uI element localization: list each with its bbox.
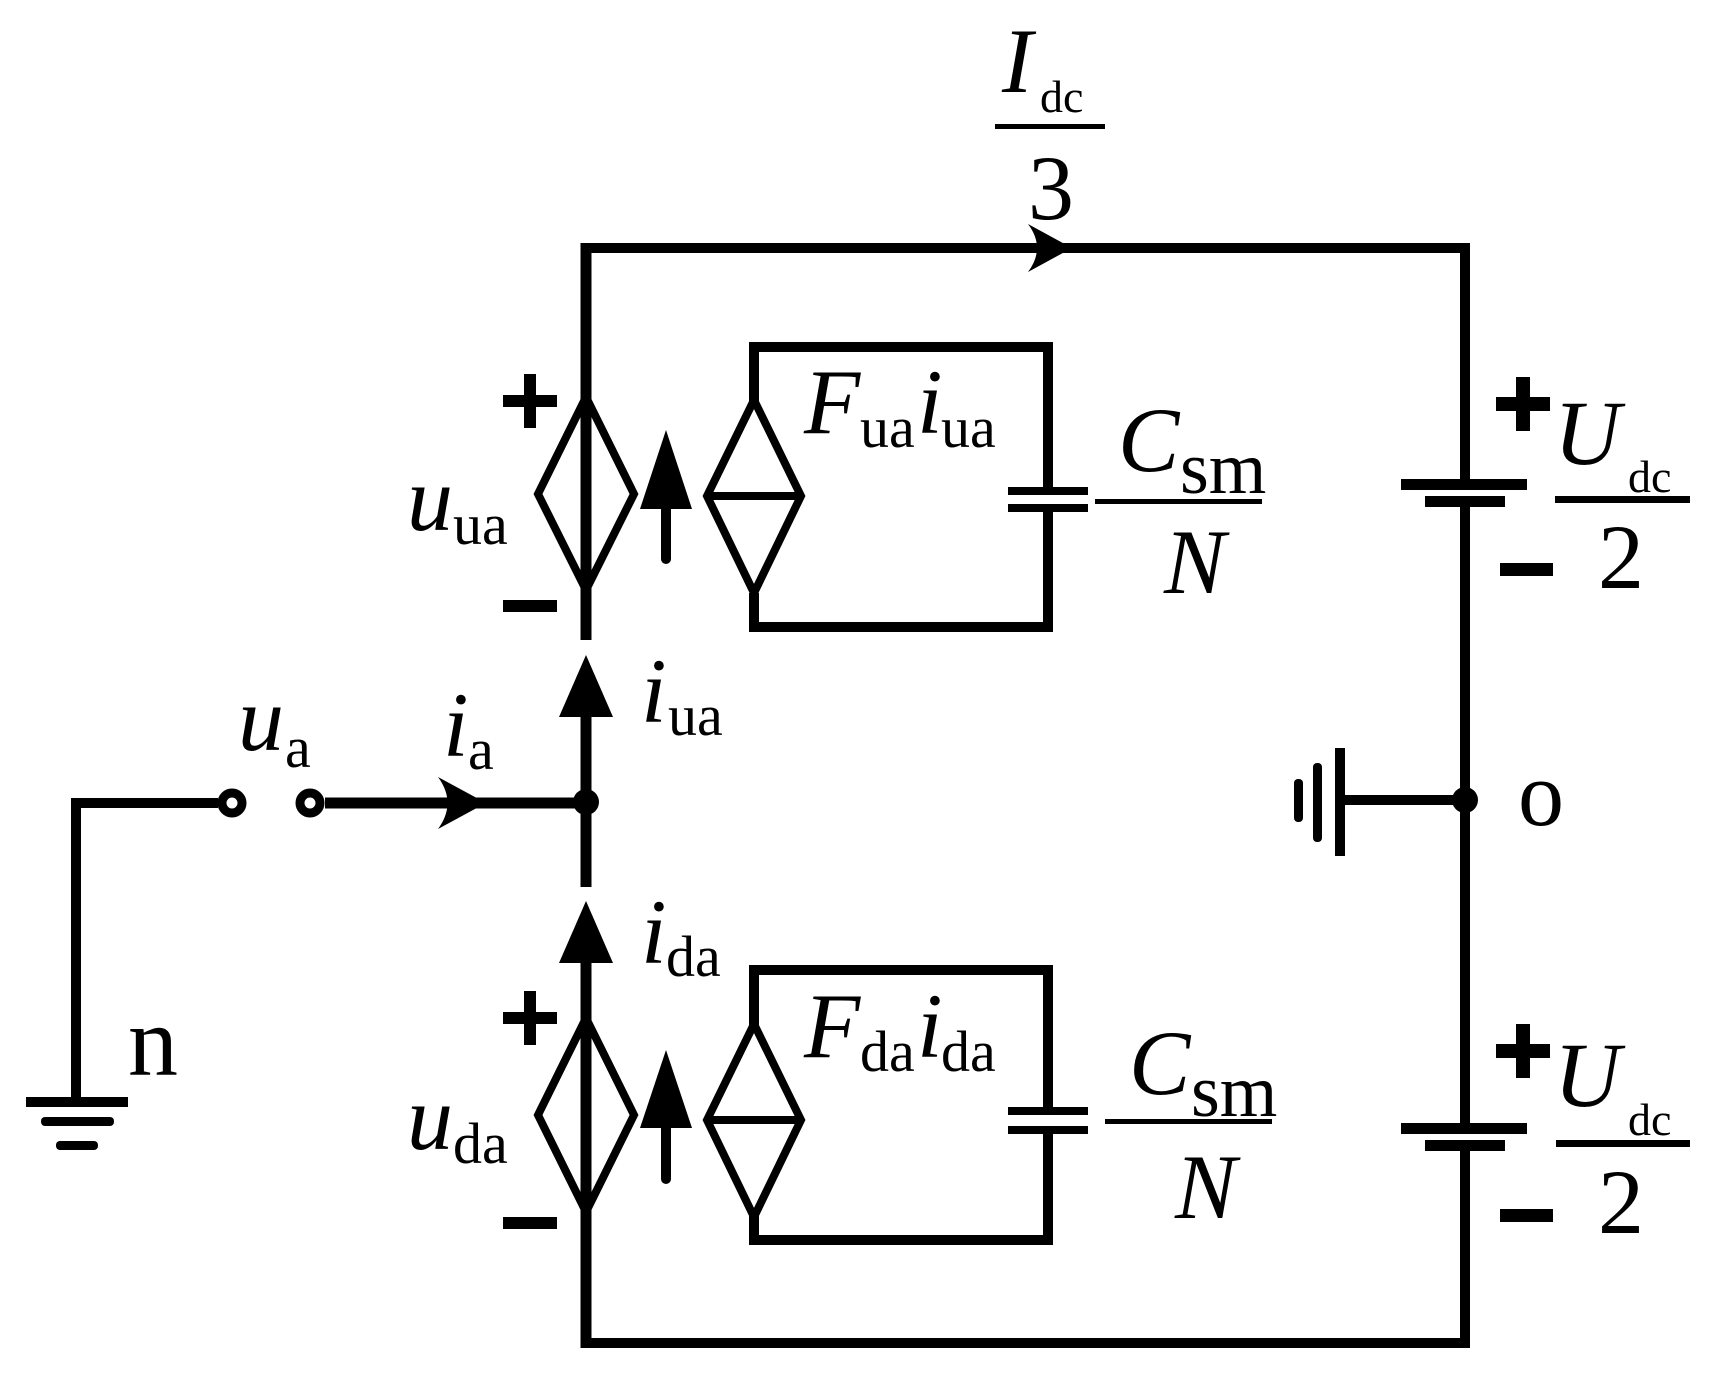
ground n bar3 bbox=[56, 1141, 98, 1150]
wire phase input right of terminal bbox=[325, 798, 586, 809]
minus sign battery lower bbox=[1500, 1209, 1553, 1222]
svg-text:u: u bbox=[238, 668, 284, 770]
node o junction dot bbox=[1452, 787, 1478, 813]
wire center arm between iua arrow and node a bbox=[581, 717, 592, 887]
dependent current source F_ua chord bbox=[707, 492, 801, 500]
wire right upper (corner to Udc/2 upper battery) bbox=[1460, 243, 1470, 479]
ground o bar3 bbox=[1294, 779, 1303, 822]
wire phase input horizontal bbox=[71, 798, 218, 808]
svg-text:C: C bbox=[1118, 389, 1181, 491]
svg-text:ua: ua bbox=[668, 683, 723, 748]
arrow beside u_da head bbox=[640, 1050, 692, 1128]
svg-text:i: i bbox=[443, 674, 469, 776]
submodule box upper bottom segment bbox=[754, 510, 1048, 627]
svg-text:ua: ua bbox=[453, 492, 508, 557]
svg-text:da: da bbox=[666, 924, 721, 989]
ground o bar2 bbox=[1313, 763, 1322, 842]
ground o bar1 bbox=[1335, 748, 1345, 856]
node a junction dot bbox=[573, 789, 599, 815]
arrow beside u_da tail bbox=[661, 1128, 671, 1179]
fraction bar Idc/3 bbox=[995, 124, 1105, 129]
svg-text:n: n bbox=[128, 986, 178, 1097]
plus sign u_ua bbox=[503, 395, 557, 407]
svg-text:N: N bbox=[1174, 1136, 1241, 1238]
svg-text:N: N bbox=[1163, 511, 1230, 613]
dependent current source F_da diamond bbox=[707, 1024, 801, 1217]
svg-text:ua: ua bbox=[860, 395, 915, 460]
minus sign u_ua bbox=[503, 600, 557, 612]
plus sign u_da bbox=[503, 1012, 557, 1024]
wire bottom bbox=[581, 1338, 1470, 1348]
svg-text:F: F bbox=[803, 351, 861, 453]
capacitor Csm/N upper plate bottom bbox=[1008, 504, 1088, 512]
svg-text:i: i bbox=[641, 640, 667, 742]
plus sign battery lower bbox=[1496, 1044, 1550, 1058]
wire right lower (battery to bottom-right corner) bbox=[1460, 1151, 1470, 1348]
submodule box upper left-top segment bbox=[754, 347, 1048, 487]
dependent voltage source u_ua diamond bbox=[538, 397, 634, 590]
svg-text:da: da bbox=[453, 1111, 508, 1176]
svg-text:sm: sm bbox=[1180, 428, 1266, 510]
svg-text:dc: dc bbox=[1040, 71, 1083, 122]
plus sign battery upper bbox=[1496, 397, 1550, 411]
dependent voltage source u_da diamond bbox=[538, 1018, 634, 1212]
current arrow i_da on wire bbox=[559, 901, 613, 963]
battery Udc/2 upper long plate bbox=[1401, 479, 1527, 490]
submodule box lower bottom segment bbox=[754, 1134, 1048, 1240]
fraction bar Udc/2 upper bbox=[1555, 496, 1690, 503]
svg-text:I: I bbox=[1001, 10, 1037, 112]
fraction bar Csm/N upper bbox=[1095, 499, 1262, 504]
dependent current source F_ua diamond bbox=[707, 400, 801, 593]
wire center arm lower (through u_da source to bottom wire) bbox=[581, 963, 592, 1348]
svg-text:C: C bbox=[1129, 1012, 1192, 1114]
minus sign u_da bbox=[503, 1217, 557, 1229]
minus sign battery upper bbox=[1500, 563, 1553, 576]
wire center arm upper (through u_ua source) bbox=[581, 243, 592, 640]
svg-text:o: o bbox=[1518, 743, 1564, 845]
arrow Idc/3 head bbox=[1028, 224, 1072, 272]
svg-text:u: u bbox=[407, 448, 453, 550]
capacitor Csm/N lower plate top bbox=[1008, 1107, 1088, 1115]
arrow i_a head bbox=[438, 777, 486, 829]
wire stub node o to ground bbox=[1345, 795, 1465, 805]
ground n bar1 bbox=[26, 1097, 128, 1107]
terminal circle left bbox=[222, 793, 242, 813]
arrow beside u_ua head bbox=[640, 430, 692, 509]
svg-text:U: U bbox=[1554, 1024, 1626, 1126]
svg-text:F: F bbox=[803, 975, 861, 1077]
wire top (node above u_ua to top-right corner) bbox=[581, 243, 1470, 253]
svg-text:i: i bbox=[917, 975, 943, 1077]
svg-text:3: 3 bbox=[1028, 137, 1074, 239]
fraction bar Csm/N lower bbox=[1105, 1119, 1272, 1124]
svg-text:sm: sm bbox=[1191, 1051, 1277, 1133]
current arrow i_ua on wire bbox=[559, 655, 613, 717]
svg-text:da: da bbox=[860, 1019, 915, 1084]
svg-text:dc: dc bbox=[1628, 1094, 1671, 1145]
wire right middle (battery to lower battery through node o) bbox=[1460, 507, 1470, 1123]
svg-text:da: da bbox=[941, 1019, 996, 1084]
fraction bar Udc/2 lower bbox=[1556, 1140, 1690, 1147]
svg-text:U: U bbox=[1554, 382, 1626, 484]
submodule box lower left-top segment bbox=[754, 970, 1048, 1107]
svg-text:a: a bbox=[468, 717, 494, 782]
arrow beside u_ua tail bbox=[661, 509, 671, 559]
capacitor Csm/N lower plate bottom bbox=[1008, 1126, 1088, 1134]
wire left vertical to ground n bbox=[71, 803, 81, 1102]
battery Udc/2 lower long plate bbox=[1401, 1123, 1527, 1134]
svg-text:dc: dc bbox=[1628, 451, 1671, 502]
battery Udc/2 lower short plate bbox=[1425, 1140, 1505, 1151]
svg-text:a: a bbox=[285, 715, 311, 780]
svg-text:i: i bbox=[917, 351, 943, 453]
svg-text:i: i bbox=[641, 881, 667, 983]
svg-text:2: 2 bbox=[1598, 1151, 1644, 1253]
svg-text:ua: ua bbox=[941, 395, 996, 460]
svg-text:u: u bbox=[407, 1067, 453, 1169]
ground n bar2 bbox=[41, 1117, 114, 1126]
terminal circle right bbox=[300, 793, 320, 813]
svg-text:2: 2 bbox=[1598, 506, 1644, 608]
dependent current source F_da chord bbox=[707, 1116, 801, 1124]
battery Udc/2 upper short plate bbox=[1425, 496, 1505, 507]
capacitor Csm/N upper plate top bbox=[1008, 487, 1088, 495]
